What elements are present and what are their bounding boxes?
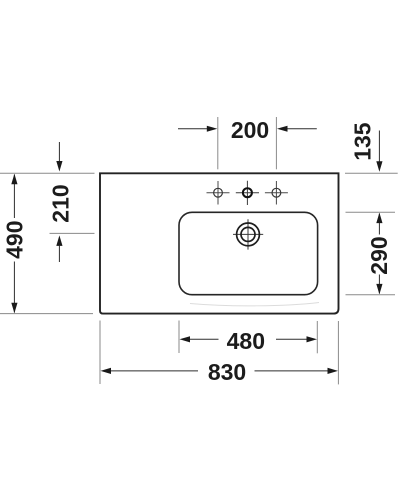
svg-text:135: 135 [350,122,376,161]
extension line bowl left (dim 480) [178,321,180,354]
dim 290 line upper segment [378,214,380,235]
dim 210 upper arrow line [58,142,60,162]
svg-text:480: 480 [227,328,265,354]
dim 200 right arrowhead [277,126,288,132]
dim 200 left arrow line [178,128,208,130]
extension line top edge right (dim 135) [345,172,398,174]
dim 490 line lower segment [13,262,15,313]
tap hole left crosshair [207,181,230,205]
drain inner circle [241,227,255,241]
svg-text:830: 830 [208,359,246,385]
extension line drain axis left (dim 210) [50,232,95,234]
drain outer circle [237,223,260,246]
faint bowl shadow line [190,303,319,306]
dim 210 lower arrow line [58,246,60,263]
svg-text:290: 290 [366,236,392,274]
tap hole center circle (pre-punched, bold) [243,188,252,197]
extension line basin left (dim 830) [99,321,101,385]
basin bowl inner outline [179,212,318,294]
dim 135 arrow line [378,131,380,162]
washbasin outer outline [100,173,339,313]
extension line bowl bottom right (dim 290) [346,294,396,296]
dim 210 lower arrowhead [56,235,62,246]
extension line bottom edge left (dim 490) [0,313,93,315]
dim 480 right arrowhead [307,336,318,342]
tap hole left circle [214,188,223,197]
svg-text:210: 210 [47,184,73,222]
extension line bowl right (dim 480) [316,321,318,353]
dim 480 left arrowhead [180,336,191,342]
extension line tap hole right (dim 200) [275,117,277,169]
dim 290 line lower segment [378,275,380,294]
tap hole center crosshair [236,181,259,205]
extension line bowl top right (dims 135/290) [346,211,396,213]
dim 830 line right segment [255,370,329,372]
dim 210 upper arrowhead [56,161,62,172]
dim 830 left arrowhead [101,368,112,374]
dim 490 upper arrowhead [11,174,17,185]
extension line basin right (dim 830) [337,321,339,384]
dim 480 line right segment [276,338,308,340]
drain crosshair [233,219,263,249]
dim 200 right arrow line [287,128,317,130]
dim 290 upper arrowhead [376,213,382,224]
tap hole right crosshair [265,181,288,205]
extension line top edge left (dims 490/210) [0,172,95,174]
dim 480 line left segment [189,338,219,340]
svg-text:200: 200 [231,117,269,143]
extension line tap hole left (dim 200) [217,117,219,169]
dim 830 right arrowhead [328,368,339,374]
dim 200 left arrowhead [207,126,218,132]
dim 490 lower arrowhead [11,303,17,314]
svg-text:490: 490 [1,221,27,259]
tap hole right circle [272,188,281,197]
dim 490 line upper segment [13,175,15,219]
dim 830 line left segment [110,370,198,372]
dim 290 lower arrowhead [376,284,382,295]
dim 135 arrowhead [376,161,382,172]
